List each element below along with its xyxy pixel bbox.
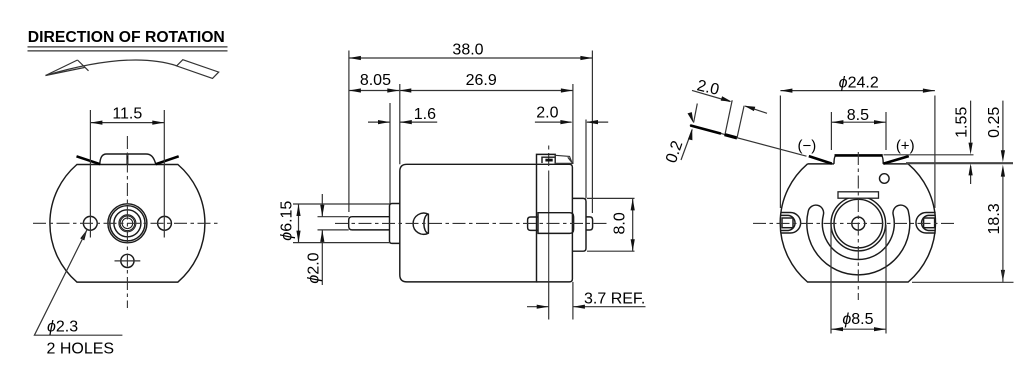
svg-text:18.3: 18.3 xyxy=(986,203,1003,234)
dim phi8.5 line xyxy=(831,328,886,330)
svg-text:8.05: 8.05 xyxy=(360,72,391,89)
svg-text:ϕ2.0: ϕ2.0 xyxy=(306,252,323,283)
side terminal flap xyxy=(555,155,572,163)
dim 0.2 line segments xyxy=(681,104,697,161)
bottom hole xyxy=(121,254,134,267)
pin hole xyxy=(880,174,890,184)
bottom hole horizontal tick xyxy=(115,260,141,262)
dim phi8.5 arrows xyxy=(831,327,886,331)
dim 8.0 line xyxy=(632,198,634,251)
rear terminal mark left (bold) xyxy=(809,156,832,164)
rear vertical centerline xyxy=(857,152,859,300)
dim 38.0 extension lines xyxy=(349,51,593,214)
rear top ledge xyxy=(808,163,909,165)
front tab center slot mark xyxy=(126,154,128,165)
dim 3.7 line segments xyxy=(527,306,646,308)
front bearing boss xyxy=(390,204,400,244)
front view body outline xyxy=(50,165,205,283)
dim 26.9 arrows xyxy=(399,88,573,92)
leader line xyxy=(34,229,122,335)
right ear slot xyxy=(924,218,935,228)
dim phi6.15 arrows xyxy=(296,204,300,243)
dim 2.0 line segments xyxy=(535,121,608,123)
dim 18.3 bottom arrow xyxy=(1001,270,1005,282)
thin ledge extension line xyxy=(884,154,974,156)
dim phi2.0 line xyxy=(321,194,323,285)
left ear slot xyxy=(782,218,793,228)
dim 18.3 line lower xyxy=(1002,270,1004,282)
dim 11.5 line xyxy=(90,122,164,124)
dim 11.5 arrows xyxy=(90,121,164,125)
vent slot xyxy=(807,205,910,275)
front bushing circles xyxy=(108,204,147,243)
side terminal xyxy=(537,154,556,163)
dim phi24.2 arrows xyxy=(780,89,935,93)
dim 8.5 extension lines xyxy=(831,112,886,150)
retainer bar xyxy=(838,192,879,198)
dim 2.0 arrows xyxy=(560,120,598,124)
svg-text:ϕ6.15: ϕ6.15 xyxy=(279,201,296,241)
rear shaft circle xyxy=(852,217,865,230)
terminal leader diagonal xyxy=(690,125,807,156)
rear bearing boss xyxy=(572,198,586,251)
heavy terminal extension line xyxy=(906,162,1013,164)
svg-text:3.7 REF.: 3.7 REF. xyxy=(584,290,645,307)
endbell hidden line extension (3.7) xyxy=(548,282,550,320)
bottom extension line xyxy=(912,281,1014,283)
motor can xyxy=(400,164,537,282)
dim 8.5 line xyxy=(831,121,886,123)
mounting hole left xyxy=(83,216,97,230)
dim 3.7 arrows xyxy=(537,305,585,309)
front horizontal centerline xyxy=(33,222,221,224)
svg-text:1.55: 1.55 xyxy=(954,107,971,138)
svg-text:(−): (−) xyxy=(798,138,817,155)
dim 1.6 arrows xyxy=(378,120,412,124)
dim 26.9 line xyxy=(399,90,573,92)
svg-text:1.6: 1.6 xyxy=(414,106,436,123)
dim 38.0 line xyxy=(349,57,593,59)
rear shaft tip xyxy=(586,217,593,230)
side terminal slot (black) xyxy=(545,159,552,162)
svg-text:DIRECTION OF ROTATION: DIRECTION OF ROTATION xyxy=(28,29,225,46)
side shaft edge extension lines xyxy=(318,217,349,230)
dim 8.05 arrows xyxy=(349,88,399,92)
dim 1.55 arrows xyxy=(969,143,973,176)
dim 3.7 extension line right xyxy=(572,282,574,320)
side shaft xyxy=(349,217,390,230)
dim 1.6 line segments xyxy=(368,121,437,123)
leader arrow to hole xyxy=(80,229,87,240)
dim 2.0 terminal arrows xyxy=(721,96,756,111)
dim 0.25 arrows xyxy=(1001,150,1005,176)
rear body outline xyxy=(780,164,935,282)
svg-text:11.5: 11.5 xyxy=(112,105,142,122)
rear raised flat (bold) xyxy=(835,154,883,157)
right ear xyxy=(916,213,936,234)
front view top tab xyxy=(100,154,156,164)
rotation arrow arc xyxy=(46,60,177,76)
dim phi6.15 line xyxy=(298,204,300,243)
dim 8.0 extension lines xyxy=(587,198,635,251)
dim phi24.2 extension lines xyxy=(780,96,935,209)
side horizontal centerline xyxy=(335,222,608,224)
svg-text:38.0: 38.0 xyxy=(452,42,483,59)
dim 8.0 arrows xyxy=(631,198,635,251)
svg-text:ϕ24.2: ϕ24.2 xyxy=(839,75,879,92)
title double underline xyxy=(28,47,228,51)
dim 1.6 extension lines xyxy=(390,84,400,204)
svg-text:8.0: 8.0 xyxy=(612,212,629,234)
dim 8.5 arrows xyxy=(831,120,886,124)
endbell hidden line xyxy=(548,146,550,282)
front terminal mark right (bold) xyxy=(156,156,179,164)
svg-text:(+): (+) xyxy=(896,138,915,155)
dim phi2.0 arrows xyxy=(320,205,324,242)
svg-text:0.25: 0.25 xyxy=(986,107,1003,138)
svg-text:ϕ8.5: ϕ8.5 xyxy=(842,311,873,328)
dim 2.0 rear extension line xyxy=(585,120,587,199)
left ear xyxy=(781,213,801,234)
rotation arrow head xyxy=(46,60,89,76)
dim phi24.2 line xyxy=(780,90,935,92)
front terminal mark left (bold) xyxy=(77,156,101,164)
dim 8.05 line xyxy=(349,90,399,92)
dim phi6.15 extension lines xyxy=(293,204,390,243)
svg-text:2.0: 2.0 xyxy=(536,105,558,122)
dim phi8.5 extension lines xyxy=(831,225,886,334)
svg-text:ϕ2.3: ϕ2.3 xyxy=(47,319,78,336)
dim 11.5 extension lines xyxy=(90,110,164,238)
svg-text:2 HOLES: 2 HOLES xyxy=(47,341,115,358)
dim 26.9 extension line right xyxy=(572,84,574,164)
bearing holder nub xyxy=(528,217,538,230)
terminal perpendicular ticks xyxy=(725,100,744,138)
mounting hole right xyxy=(158,216,172,230)
dim 0.2 arrows xyxy=(688,112,694,140)
rear horizontal centerline xyxy=(753,222,957,224)
dim 38.0 arrows xyxy=(349,56,593,60)
endbell xyxy=(537,164,573,282)
front vertical centerline xyxy=(126,136,128,308)
dim 1.55 line xyxy=(970,101,972,184)
oil dome xyxy=(413,213,428,234)
svg-text:26.9: 26.9 xyxy=(466,72,497,89)
rear terminal mark right (bold) xyxy=(884,156,909,164)
bearing holder capsule xyxy=(538,213,574,234)
rear bearing circles xyxy=(831,196,886,251)
dim 2.0 terminal line segments xyxy=(692,90,767,113)
rear raised flat steps xyxy=(834,155,883,164)
rotation arrow tail xyxy=(177,60,219,79)
svg-text:8.5: 8.5 xyxy=(847,107,869,124)
dim 0.25 and 18.3 line xyxy=(1002,101,1004,270)
terminal cross-section bold segments xyxy=(690,125,721,133)
